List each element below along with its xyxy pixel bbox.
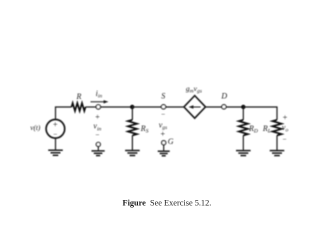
v_o minus sign xyxy=(283,136,287,144)
svg-text:−: − xyxy=(161,111,165,119)
voltage source V1 circle xyxy=(46,120,65,139)
G terminal (open circle) xyxy=(162,141,166,145)
svg-text:+: + xyxy=(283,113,288,122)
svg-text:vo: vo xyxy=(282,123,289,134)
wire dependent source to D terminal xyxy=(206,106,222,108)
resistor RL xyxy=(273,120,282,136)
S terminal (open circle) xyxy=(161,105,165,109)
svg-text:−: − xyxy=(96,131,100,139)
stem G terminal to ground xyxy=(163,145,165,151)
figure caption xyxy=(123,199,212,208)
svg-text:iin: iin xyxy=(96,89,103,100)
wire Rs to ground xyxy=(131,135,133,150)
svg-text:+: + xyxy=(161,129,166,138)
svg-text:Figure See Exercise 5.12.: Figure See Exercise 5.12. xyxy=(123,199,212,208)
wire junction B down to Rd xyxy=(242,107,244,120)
svg-text:G: G xyxy=(168,137,174,146)
v_o label xyxy=(282,123,289,134)
v_gs plus sign xyxy=(161,129,166,138)
svg-text:RD: RD xyxy=(248,124,258,135)
wire R to input node xyxy=(86,106,97,108)
wire junction B to RL branch xyxy=(243,107,277,120)
wire junction A to S terminal xyxy=(132,106,161,108)
resistor R xyxy=(72,103,86,111)
D terminal (open circle) xyxy=(222,105,226,109)
wire junction A down to Rs xyxy=(131,107,133,120)
ground under Rd xyxy=(236,151,251,156)
ground under lower input terminal xyxy=(92,151,105,156)
resistor Rs xyxy=(128,120,137,136)
wire D terminal to output junction xyxy=(226,106,243,108)
resistor R value label xyxy=(76,92,82,101)
ground under Rs xyxy=(125,151,140,156)
v_in minus sign xyxy=(96,131,100,139)
current label i_in xyxy=(96,89,103,100)
ground under G xyxy=(158,151,170,156)
lower input terminal (open circle) xyxy=(96,142,100,146)
svg-text:+: + xyxy=(53,120,58,129)
svg-text:RL: RL xyxy=(262,124,271,135)
node D label xyxy=(220,92,227,101)
wire Rd to ground xyxy=(242,135,244,150)
resistor RL value label xyxy=(262,124,271,135)
junction node B (dot) xyxy=(241,105,245,109)
svg-text:+: + xyxy=(95,113,100,122)
svg-text:−: − xyxy=(53,130,57,138)
wire input node to Rs junction xyxy=(101,106,133,108)
ground under RL xyxy=(270,151,285,156)
svg-text:gmvgs: gmvgs xyxy=(186,84,202,94)
resistor Rs value label xyxy=(140,124,149,135)
node G label xyxy=(168,137,174,146)
voltage source v(t) label xyxy=(30,123,41,132)
resistor Rd xyxy=(239,120,248,136)
wire source bottom to ground xyxy=(55,138,57,149)
dependent current source U1 (diamond) xyxy=(184,96,206,119)
wire source top to main node xyxy=(56,107,72,119)
svg-text:S: S xyxy=(161,91,165,100)
wire RL to ground xyxy=(276,135,278,150)
current arrow i_in xyxy=(91,100,109,103)
v_in label xyxy=(93,122,101,133)
svg-text:RS: RS xyxy=(140,124,149,135)
svg-text:v(t): v(t) xyxy=(30,123,41,132)
junction node A (dot) xyxy=(130,105,134,109)
v_o plus sign xyxy=(283,113,288,122)
svg-text:−: − xyxy=(283,136,287,144)
input node terminal (open circle) xyxy=(96,105,100,109)
dependent source label gm vgs xyxy=(186,84,202,94)
v_in plus sign xyxy=(95,113,100,122)
svg-text:R: R xyxy=(76,92,82,101)
wire S terminal to dependent source xyxy=(166,106,184,108)
ground under source xyxy=(48,150,63,155)
svg-text:D: D xyxy=(220,92,227,101)
v_gs label xyxy=(159,120,167,131)
stem lower terminal to ground xyxy=(97,147,99,151)
node S label xyxy=(161,91,165,100)
resistor Rd value label xyxy=(248,124,258,135)
v_gs minus sign xyxy=(161,111,165,119)
